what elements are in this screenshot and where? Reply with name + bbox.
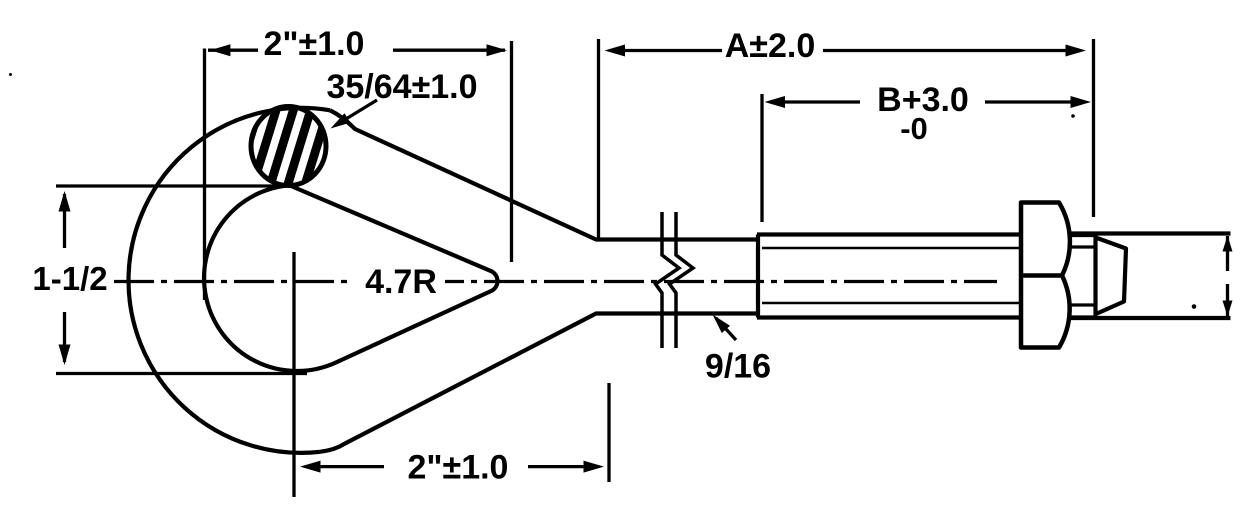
- svg-text:2"±1.0: 2"±1.0: [264, 25, 365, 63]
- svg-text:1-1/2: 1-1/2: [32, 260, 107, 297]
- svg-text:4.7R: 4.7R: [365, 263, 437, 301]
- svg-text:2"±1.0: 2"±1.0: [408, 449, 509, 487]
- outer hook arc: [129, 108, 330, 453]
- thread minor diameter lines: [762, 247, 1021, 249]
- svg-text:-0: -0: [900, 111, 928, 146]
- dim: B+3.0 / -0: [760, 94, 763, 222]
- right end diameter dimension line with arrows: [1226, 236, 1229, 271]
- scan specks: [1192, 304, 1197, 309]
- hook lower outer line to shaft: [320, 314, 758, 452]
- dim: top 2"±1.0: [203, 49, 206, 301]
- vertical center mark of hook: [292, 252, 295, 497]
- rod end cross-section circle: [251, 107, 326, 186]
- shaft break lines: [656, 212, 680, 348]
- threaded section: [756, 235, 760, 318]
- tube / swage end rectangle: [1069, 231, 1231, 235]
- svg-text:35/64±1.0: 35/64±1.0: [326, 68, 477, 106]
- nut: [1021, 203, 1070, 348]
- dim: A±2.0: [597, 39, 600, 238]
- svg-text:A±2.0: A±2.0: [725, 27, 815, 65]
- chamfered stud end (trapezoid): [1097, 238, 1126, 314]
- horizontal centerline (dash-dot): [114, 280, 352, 283]
- svg-text:9/16: 9/16: [705, 348, 771, 386]
- inner hook opening and teardrop slot: [204, 185, 497, 371]
- dim: 1-1/2 vertical: [56, 184, 296, 187]
- thread stub between nut and tube: [1068, 234, 1096, 237]
- hook upper outer line to shaft: [330, 110, 758, 239]
- dim: bottom 2"±1.0: [607, 383, 610, 482]
